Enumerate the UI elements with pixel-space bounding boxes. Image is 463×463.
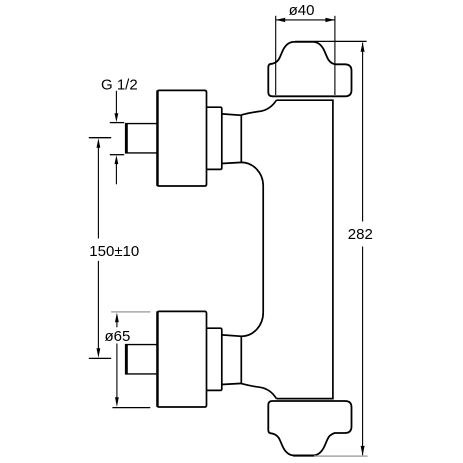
wall column body outline [276, 100, 333, 398]
top inlet nipple G 1/2 [126, 124, 158, 153]
dimension G 1/2 up arrow [115, 155, 119, 164]
dimension o65 lower shaft [116, 344, 118, 398]
bottom valve ring [207, 328, 222, 390]
dimension 150 upper shaft [97, 147, 99, 239]
dimension 150 top tick [89, 137, 111, 139]
dimension 282 up arrow [361, 42, 365, 52]
dimension o65 up arrow [115, 313, 119, 323]
dimension G 1/2 top tick [110, 122, 124, 124]
dimension o40 line [276, 19, 335, 21]
dimension o65 upper shaft [116, 322, 118, 328]
bottom mounting escutcheon cap [268, 401, 351, 455]
bottom arm lower contour [241, 384, 276, 399]
top mounting escutcheon cap [268, 42, 351, 96]
dimension o65 bottom extension line [112, 407, 150, 409]
dimension o40 right extension line [334, 16, 336, 95]
bottom cap dome flat bottom edge [293, 455, 316, 457]
dimension 150 down arrow [97, 348, 101, 358]
svg-text:ø40: ø40 [289, 2, 315, 19]
top arm upper contour [241, 100, 276, 115]
svg-text:ø65: ø65 [105, 328, 131, 345]
top valve ring [207, 107, 222, 169]
dimension o40 right arrow [325, 18, 335, 22]
bottom nipple thick thread edge [125, 344, 128, 374]
dimension o65 top extension line gray [111, 311, 150, 313]
column left contour between valves [241, 162, 263, 336]
dimension 282 down arrow [361, 446, 365, 456]
dimension 282 line lower segment [362, 247, 364, 456]
svg-text:282: 282 [348, 226, 373, 243]
dimension G 1/2 upper shaft [115, 91, 117, 114]
top valve body thick left edge [156, 90, 158, 186]
top nipple thick thread edge [125, 123, 128, 153]
dimension 282 bottom extension line gray [314, 455, 368, 457]
dimension o65 down arrow [115, 397, 119, 407]
dimension o40 left extension line [275, 16, 277, 95]
bottom valve body [126, 311, 242, 407]
svg-text:G 1/2: G 1/2 [101, 77, 138, 94]
dimension G 1/2 lower shaft [115, 164, 117, 185]
dimension 150 bottom tick [89, 357, 111, 359]
dimension 282 top extension line [295, 40, 367, 42]
top valve neck [222, 114, 242, 164]
dimension 282 line upper segment [362, 43, 364, 222]
bottom inlet nipple G 1/2 [126, 345, 158, 374]
dimension G 1/2 bottom tick [110, 154, 124, 156]
dimension o40 left arrow [276, 18, 286, 22]
dimension G 1/2 down arrow [115, 113, 119, 122]
bottom valve neck [222, 335, 242, 385]
top valve body [157, 90, 206, 186]
svg-text:150±10: 150±10 [89, 243, 139, 260]
dimension 150 lower shaft [97, 261, 99, 349]
bottom valve body thick left edge [156, 311, 158, 407]
dimension 150 up arrow [97, 138, 101, 148]
